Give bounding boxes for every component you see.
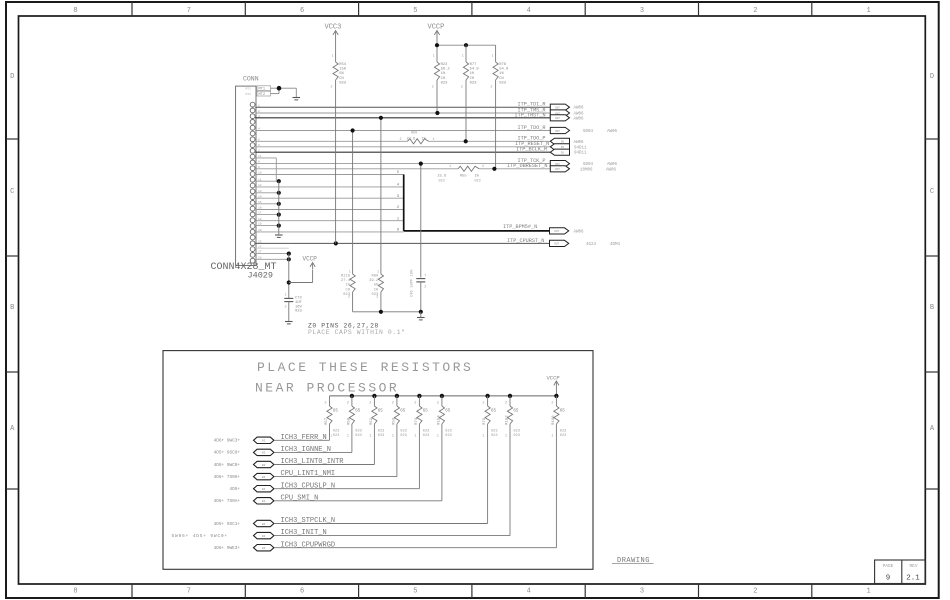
- svg-text:VCCP: VCCP: [303, 256, 318, 263]
- ground termination: [417, 317, 425, 319]
- svg-text:ICH3_CPUPWRGD: ICH3_CPUPWRGD: [281, 541, 336, 549]
- wire BPM5: [255, 174, 404, 176]
- junction C45 gnd: [419, 310, 423, 314]
- svg-text:26: 26: [258, 245, 262, 248]
- svg-text:ITP_CPURST_N: ITP_CPURST_N: [507, 238, 544, 244]
- junction gnd pin: [277, 191, 281, 195]
- svg-text:PLACE CAPS WITHIN 0.1": PLACE CAPS WITHIN 0.1": [308, 329, 406, 336]
- svg-text:27: 27: [258, 251, 262, 254]
- svg-text:C: C: [10, 188, 14, 196]
- svg-text:C73: C73: [295, 297, 303, 301]
- svg-text:ICH3_IGNNE_N: ICH3_IGNNE_N: [281, 446, 331, 454]
- svg-text:5%: 5%: [339, 72, 344, 76]
- svg-text:1: 1: [482, 435, 484, 439]
- svg-text:1: 1: [331, 434, 333, 437]
- svg-text:AW06: AW06: [607, 130, 618, 134]
- svg-text:54.9: 54.9: [470, 68, 480, 72]
- svg-text:6: 6: [300, 7, 304, 15]
- svg-text:J4029: J4029: [248, 271, 274, 281]
- svg-text:REV: REV: [910, 564, 918, 569]
- junction rail/R152: [508, 394, 512, 398]
- svg-text:023: 023: [400, 434, 406, 438]
- wire ITP_TCK_P wire: [255, 163, 550, 165]
- resistor R60 22.6 series: [408, 139, 429, 144]
- wire ICH3_FERR_N: [274, 439, 329, 441]
- svg-text:2: 2: [490, 86, 492, 90]
- svg-text:023: 023: [339, 81, 347, 85]
- svg-text:4D5+ 9SC9+: 4D5+ 9SC9+: [214, 451, 241, 456]
- svg-text:AW06: AW06: [574, 230, 585, 234]
- svg-text:65: 65: [491, 410, 497, 414]
- wire CPU_SMI_N: [274, 500, 442, 502]
- wire ITP_TDO_P segment right: [429, 140, 551, 142]
- wire rail to R152: [509, 396, 511, 406]
- flag ITP_CPURST_N: [550, 240, 569, 246]
- wire MT junction vertical: [278, 88, 280, 93]
- wire VCCP to R22: [436, 38, 438, 63]
- flag BI ICH3_LINT0_INTR: [254, 461, 274, 467]
- svg-text:1UF: 1UF: [295, 301, 303, 305]
- flag ITP_TCK_P: [550, 161, 569, 167]
- flag ITP_TRST_N: [550, 115, 569, 121]
- svg-text:023: 023: [513, 434, 519, 438]
- svg-text:1%: 1%: [441, 72, 446, 76]
- wire BPM0: [255, 231, 404, 233]
- connector J4029 body: [236, 86, 256, 265]
- flag ITP_TDO_R: [550, 127, 569, 133]
- svg-text:3: 3: [258, 115, 260, 118]
- svg-text:R154: R154: [437, 415, 441, 425]
- svg-text:CONN: CONN: [243, 76, 259, 83]
- wire R52 to signal row: [373, 424, 375, 465]
- svg-text:39.2: 39.2: [369, 279, 379, 283]
- wire C73 to gnd: [288, 302, 290, 321]
- wire C45 bottom: [420, 282, 422, 312]
- svg-text:ITP_BCLK_R: ITP_BCLK_R: [516, 147, 547, 153]
- wire to R77: [465, 45, 467, 62]
- wire VCCP rail: [437, 44, 496, 46]
- wire ICH3_INIT_N: [274, 535, 510, 537]
- svg-text:2: 2: [432, 86, 434, 90]
- wire ITP_TRST_N wire: [255, 117, 550, 119]
- svg-text:1: 1: [437, 435, 439, 439]
- svg-text:65: 65: [423, 410, 429, 414]
- svg-text:B: B: [930, 304, 934, 312]
- svg-text:13: 13: [258, 190, 262, 193]
- wire R77 to TDO_P line: [465, 80, 467, 141]
- svg-text:023: 023: [378, 434, 384, 438]
- svg-text:1: 1: [449, 165, 451, 169]
- svg-text:2: 2: [505, 402, 507, 406]
- junction R80 gnd: [379, 310, 383, 314]
- wire R54 down to CPURST line: [335, 80, 337, 243]
- wire ICH3_LINT0_INTR: [274, 464, 374, 466]
- svg-text:023: 023: [355, 434, 361, 438]
- title block PAGE/REV box: [875, 560, 926, 584]
- wire ICH3_CPUSLP_N: [274, 488, 419, 490]
- wire MT2: [271, 93, 280, 95]
- VCCP power arrow (box): [554, 381, 559, 385]
- svg-text:R58: R58: [347, 417, 351, 425]
- MT2 pin box: [257, 91, 271, 96]
- resistor R80: [378, 274, 383, 292]
- wire ICH3_IGNNE_N: [274, 451, 352, 453]
- svg-text:65: 65: [560, 410, 566, 414]
- svg-text:023: 023: [470, 81, 478, 85]
- svg-text:14: 14: [258, 195, 262, 198]
- svg-text:5W06+ 4D5+ 9WC0+: 5W06+ 4D5+ 9WC0+: [172, 534, 229, 539]
- svg-text:OUT: OUT: [554, 243, 559, 246]
- svg-text:R80: R80: [371, 275, 379, 279]
- svg-text:023: 023: [378, 430, 384, 434]
- junction pin28: [287, 257, 291, 261]
- wire R196 to signal row: [555, 424, 557, 548]
- svg-text:OUT: OUT: [554, 230, 559, 233]
- svg-text:023: 023: [560, 430, 566, 434]
- svg-text:023: 023: [445, 430, 451, 434]
- svg-text:2: 2: [400, 138, 402, 142]
- svg-text:65: 65: [445, 410, 451, 414]
- svg-text:2: 2: [414, 402, 416, 406]
- svg-text:BI: BI: [262, 476, 266, 479]
- svg-text:BI: BI: [262, 523, 266, 526]
- junction rail/R58: [350, 394, 354, 398]
- svg-text:023: 023: [491, 430, 497, 434]
- svg-text:MT2: MT2: [259, 93, 265, 97]
- svg-text:BI: BI: [262, 464, 266, 467]
- svg-text:2: 2: [258, 110, 260, 113]
- wire to R78: [495, 45, 497, 62]
- connector pin circles: [250, 102, 255, 107]
- junction gnd pin: [277, 224, 281, 228]
- wire ITP_TMS_R wire: [255, 112, 550, 114]
- svg-text:ITP_TRST_N: ITP_TRST_N: [515, 112, 546, 118]
- junction rail/R53: [395, 394, 399, 398]
- junction VCCP rail 1: [435, 43, 439, 47]
- svg-text:ICH3_FERR_N: ICH3_FERR_N: [281, 434, 327, 442]
- svg-text:OUT: OUT: [555, 168, 560, 171]
- svg-text:R152: R152: [505, 415, 509, 425]
- svg-text:4D5+: 4D5+: [229, 487, 240, 492]
- wire ITP_DBRESET_N segment right: [479, 168, 550, 170]
- svg-text:94D11: 94D11: [574, 146, 587, 150]
- svg-text:VCCP: VCCP: [428, 24, 445, 32]
- svg-text:AW06: AW06: [606, 168, 617, 172]
- svg-text:5D04: 5D04: [583, 130, 594, 134]
- svg-text:023: 023: [295, 310, 303, 314]
- svg-text:CH: CH: [499, 77, 504, 81]
- wire BPM4: [255, 186, 404, 188]
- svg-text:2: 2: [753, 588, 757, 596]
- resistor R196: [554, 406, 559, 424]
- svg-text:4DM4: 4DM4: [610, 243, 621, 247]
- svg-text:MT2: MT2: [246, 93, 252, 96]
- wire pin11 jog horizontal: [255, 157, 276, 159]
- svg-text:10M06: 10M06: [580, 168, 593, 172]
- wire R57 to signal row: [329, 424, 331, 440]
- flag BI ICH3_INIT_N: [254, 532, 274, 538]
- svg-text:BI: BI: [262, 452, 266, 455]
- svg-text:9: 9: [886, 575, 891, 583]
- resistor R22 pull-up: [434, 62, 439, 80]
- svg-text:5%: 5%: [374, 284, 379, 288]
- svg-text:54.9: 54.9: [499, 68, 509, 72]
- svg-text:1: 1: [347, 435, 349, 439]
- svg-text:CH: CH: [441, 77, 446, 81]
- flag BI ICH3_FERR_N: [254, 437, 274, 443]
- svg-text:5: 5: [413, 588, 417, 596]
- svg-text:AW06: AW06: [574, 141, 585, 145]
- flag ITP_TMS_R: [550, 110, 569, 116]
- junction rail/R196: [554, 394, 558, 398]
- wire rail to R57: [329, 396, 331, 406]
- resistor R57: [327, 406, 332, 424]
- svg-text:R57: R57: [325, 417, 329, 425]
- wire VCCP arrow drop: [312, 270, 314, 283]
- flag ITP_RESET_N: [550, 144, 569, 150]
- svg-text:C45 10PF 10%: C45 10PF 10%: [411, 269, 415, 297]
- svg-text:8: 8: [73, 7, 77, 15]
- junction TDO/R118: [351, 128, 355, 132]
- junction rail/R154: [440, 394, 444, 398]
- svg-text:CH: CH: [470, 77, 475, 81]
- svg-text:ICH3_LINT0_INTR: ICH3_LINT0_INTR: [281, 458, 345, 466]
- svg-text:PAGE: PAGE: [883, 564, 894, 569]
- svg-text:2: 2: [392, 402, 394, 406]
- wire TDO line down to R118: [352, 131, 354, 275]
- svg-text:ITP_TDO_R: ITP_TDO_R: [518, 125, 546, 131]
- flag BI ICH3_CPUSLP_N: [254, 486, 274, 492]
- svg-text:NEAR PROCESSOR: NEAR PROCESSOR: [255, 381, 399, 396]
- svg-text:7: 7: [187, 7, 191, 15]
- svg-text:MT1: MT1: [246, 88, 252, 91]
- svg-text:1: 1: [866, 588, 870, 596]
- svg-text:R53: R53: [392, 417, 396, 425]
- junction gnd pin: [277, 213, 281, 217]
- wire ICH3_CPUPWRGD: [274, 547, 556, 549]
- svg-text:1: 1: [866, 7, 870, 15]
- wire pin 28: [255, 258, 289, 260]
- junction TRST/R80: [379, 116, 383, 120]
- flag ITP_DBRESET_N: [550, 166, 569, 172]
- svg-text:4: 4: [258, 128, 260, 131]
- resistor R77 pull-up: [463, 62, 468, 80]
- svg-text:4D5+ 9SC1+: 4D5+ 9SC1+: [214, 522, 241, 527]
- svg-text:023: 023: [423, 430, 429, 434]
- wire R80 bottom: [380, 292, 382, 312]
- svg-text:AW06: AW06: [574, 107, 585, 111]
- svg-text:5D04: 5D04: [583, 163, 594, 167]
- svg-text:BI: BI: [262, 440, 266, 443]
- wire ITP_RESET_N wire: [255, 146, 550, 148]
- junction VCCP feed: [287, 280, 291, 284]
- junction VCCP rail 2: [464, 43, 468, 47]
- wire ICH3_STPCLK_N: [274, 523, 487, 525]
- junction pin27: [287, 252, 291, 256]
- svg-text:023: 023: [423, 434, 429, 438]
- wire to gnd: [420, 312, 422, 317]
- wire VCCP rail (box): [330, 395, 557, 397]
- junction gnd pin: [277, 202, 281, 206]
- svg-text:1: 1: [491, 55, 493, 59]
- svg-text:023: 023: [560, 434, 566, 438]
- wire gnd pin: [255, 214, 279, 216]
- svg-text:2: 2: [331, 86, 333, 90]
- svg-text:R52: R52: [370, 417, 374, 425]
- svg-text:D: D: [930, 73, 934, 81]
- svg-text:4D6+ 9WE3+: 4D6+ 9WE3+: [214, 546, 241, 551]
- svg-text:2: 2: [482, 165, 484, 169]
- svg-text:150: 150: [339, 68, 347, 72]
- wire pin 27: [255, 253, 289, 255]
- wire R79 to signal row: [487, 424, 489, 524]
- wire gnd column vertical: [278, 181, 280, 234]
- svg-text:20: 20: [258, 229, 262, 232]
- wire BPM2: [255, 209, 404, 211]
- svg-text:6: 6: [258, 144, 260, 147]
- svg-text:18: 18: [258, 218, 262, 221]
- svg-text:11: 11: [258, 178, 262, 181]
- svg-text:28: 28: [258, 256, 262, 259]
- MT1 pin box: [257, 86, 271, 91]
- wire rail to R58: [351, 396, 353, 406]
- wire BPM1: [255, 220, 404, 222]
- svg-text:4D6+ 7S0A+: 4D6+ 7S0A+: [214, 499, 241, 504]
- svg-text:023: 023: [355, 430, 361, 434]
- wire ITP_BCLK_R wire: [255, 151, 550, 153]
- wire pin11 jog vertical: [275, 158, 277, 181]
- svg-text:19: 19: [258, 223, 262, 226]
- wire ITP_BPM bus to flag: [404, 230, 550, 232]
- svg-text:65: 65: [333, 410, 339, 414]
- svg-text:2: 2: [347, 402, 349, 406]
- VCCP power arrow (connector): [310, 263, 315, 267]
- resistor R152: [507, 406, 512, 424]
- svg-text:023: 023: [513, 430, 519, 434]
- svg-text:C: C: [930, 188, 934, 196]
- flag BI CPU_SMI_N: [254, 498, 274, 504]
- svg-text:BI: BI: [262, 547, 266, 550]
- svg-text:ICH3_CPUSLP_N: ICH3_CPUSLP_N: [281, 482, 336, 490]
- svg-text:R78: R78: [499, 63, 507, 67]
- flag BI CPU_LINT1_NMI: [254, 473, 274, 479]
- VCCP power arrow (top): [434, 31, 439, 35]
- svg-text:8: 8: [258, 161, 260, 164]
- svg-text:65: 65: [513, 410, 519, 414]
- wire VCCP drop (box): [555, 388, 557, 396]
- svg-text:2: 2: [348, 296, 350, 300]
- svg-text:023: 023: [499, 81, 507, 85]
- flag ITP_BCLK_R: [550, 149, 569, 155]
- svg-text:OUT: OUT: [555, 117, 560, 120]
- svg-text:IN: IN: [561, 141, 565, 144]
- svg-text:023: 023: [445, 434, 451, 438]
- wire R22 to TMS line: [436, 80, 438, 113]
- wire ITP_TDI_R wire: [255, 106, 550, 108]
- svg-text:4G24: 4G24: [586, 243, 597, 247]
- wire rail to R74: [418, 396, 420, 406]
- svg-text:2: 2: [285, 306, 287, 310]
- svg-text:PLACE THESE RESISTORS: PLACE THESE RESISTORS: [257, 360, 473, 375]
- svg-text:94D11: 94D11: [574, 152, 587, 156]
- svg-text:2: 2: [376, 296, 378, 300]
- svg-text:BI: BI: [262, 488, 266, 491]
- svg-text:7: 7: [187, 588, 191, 596]
- svg-text:VCCP: VCCP: [547, 375, 560, 382]
- svg-text:1: 1: [433, 55, 435, 59]
- bus bracket vertical: [403, 175, 405, 231]
- svg-text:65: 65: [400, 410, 406, 414]
- svg-text:15: 15: [258, 201, 262, 204]
- svg-text:CH: CH: [339, 77, 344, 81]
- svg-text:4: 4: [527, 588, 531, 596]
- wire Z0 pin 26 (gray): [255, 247, 289, 249]
- svg-text:R54: R54: [339, 63, 347, 67]
- wire ITP_TDO_P segment left: [255, 140, 407, 142]
- svg-text:ITP_DBRESET_N: ITP_DBRESET_N: [507, 163, 547, 169]
- svg-text:1: 1: [285, 294, 287, 298]
- svg-text:10: 10: [258, 172, 262, 175]
- svg-text:CH: CH: [345, 288, 350, 292]
- junction rail/R52: [372, 394, 376, 398]
- resistor R52: [372, 406, 377, 424]
- junction TCK/C45: [419, 162, 423, 166]
- wire R154 to signal row: [441, 424, 443, 501]
- capacitor C45: [416, 278, 425, 280]
- svg-text:1: 1: [462, 55, 464, 59]
- svg-text:4D6+ 9WC3+: 4D6+ 9WC3+: [214, 439, 241, 444]
- junction rail/R74: [417, 394, 421, 398]
- svg-text:023: 023: [475, 180, 481, 184]
- svg-text:22.6: 22.6: [438, 175, 447, 179]
- svg-text:3: 3: [640, 588, 644, 596]
- wire ITP_DBRESET_N segment left: [255, 168, 458, 170]
- svg-text:R55: R55: [460, 175, 466, 179]
- svg-text:1: 1: [369, 435, 371, 439]
- svg-text:4D6+ 7S0H+: 4D6+ 7S0H+: [214, 475, 241, 480]
- resistor R118: [350, 274, 355, 292]
- svg-text:VCC3: VCC3: [325, 24, 342, 32]
- junction R54 pulldown on CPURST: [334, 241, 338, 245]
- svg-text:12: 12: [258, 184, 262, 187]
- svg-text:OUT: OUT: [555, 107, 560, 110]
- svg-text:1: 1: [392, 435, 394, 439]
- svg-text:AW06: AW06: [574, 113, 585, 117]
- wire ITP_TDO_R wire: [255, 130, 550, 132]
- svg-text:R22: R22: [441, 63, 449, 67]
- resistor R55 22.6 series: [458, 166, 479, 171]
- wire to MT ground: [295, 88, 297, 97]
- wire rail to R196: [555, 396, 557, 406]
- flag ITP_BPM5_N: [550, 228, 569, 234]
- wire R58 to signal row: [351, 424, 353, 452]
- svg-text:1%: 1%: [499, 72, 504, 76]
- junction gnd pin: [277, 179, 281, 183]
- svg-text:BI: BI: [262, 535, 266, 538]
- svg-text:R60: R60: [411, 132, 417, 136]
- ground C73: [285, 321, 293, 323]
- svg-text:2: 2: [551, 402, 553, 406]
- svg-text:R79: R79: [483, 417, 487, 425]
- ground MT: [293, 97, 301, 99]
- resistor R78 pull-up: [493, 62, 498, 80]
- wire gnd pin: [255, 203, 279, 205]
- svg-text:1: 1: [258, 104, 260, 107]
- svg-text:1: 1: [414, 435, 416, 439]
- svg-text:1%: 1%: [470, 72, 475, 76]
- svg-text:65: 65: [355, 410, 361, 414]
- svg-text:R77: R77: [470, 63, 477, 67]
